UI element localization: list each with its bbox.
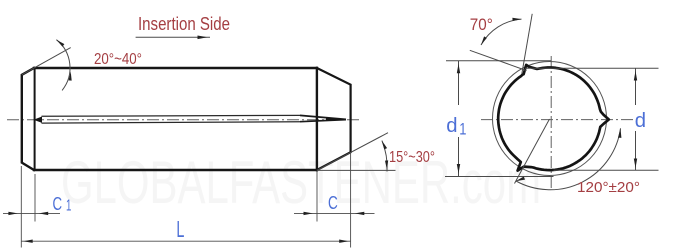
svg-text:Insertion Side: Insertion Side: [138, 14, 230, 34]
svg-text:70°: 70°: [470, 16, 493, 34]
svg-text:1: 1: [459, 119, 466, 138]
svg-text:C: C: [328, 193, 338, 213]
svg-text:1: 1: [66, 198, 71, 215]
svg-text:GLOBALFASTENER.com: GLOBALFASTENER.com: [61, 148, 541, 216]
svg-text:C: C: [53, 193, 63, 214]
svg-text:d: d: [446, 115, 457, 137]
svg-text:20°~40°: 20°~40°: [94, 51, 142, 68]
svg-text:d: d: [635, 110, 646, 132]
svg-text:L: L: [176, 216, 184, 242]
svg-text:120°±20°: 120°±20°: [577, 179, 640, 196]
svg-text:15°~30°: 15°~30°: [389, 149, 435, 166]
